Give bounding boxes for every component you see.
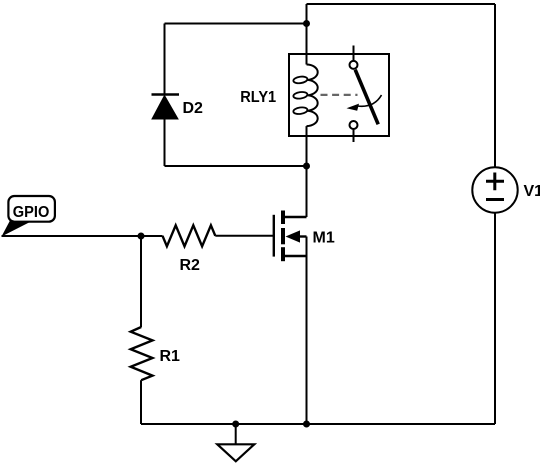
wire right vertical bottom (V1 to bottom rail) [494, 213, 496, 424]
relay actuation arrow [347, 95, 382, 111]
svg-text:V1: V1 [524, 183, 540, 200]
wire trunk top (top wire down into relay coil) [306, 4, 308, 65]
wire junction down to R1 [140, 236, 142, 327]
wire trunk through relay (coil bottom to MOSFET drain) [306, 126, 308, 217]
MOSFET M1 [274, 211, 307, 262]
wire trunk MOSFET source down to bottom rail [306, 237, 308, 425]
diode D2 [152, 24, 180, 167]
junction gate divider node [138, 233, 145, 240]
svg-text:R2: R2 [180, 257, 201, 274]
wire R2 to gate [215, 235, 273, 237]
resistor R2 [163, 225, 216, 246]
svg-text:RLY1: RLY1 [240, 89, 276, 106]
wire R1 to bottom rail [140, 380, 142, 424]
svg-text:GPIO: GPIO [13, 204, 50, 221]
svg-text:R1: R1 [160, 348, 181, 365]
wire D2 top branch [165, 23, 307, 25]
relay switch pin top [353, 46, 355, 62]
wire right vertical top (V1 to top wire) [494, 4, 496, 168]
junction trunk-bottom rail [303, 421, 310, 428]
resistor R1 [131, 327, 153, 380]
relay switch blade [355, 70, 378, 125]
relay switch contact top [350, 61, 358, 69]
junction D2 bottom [303, 163, 310, 170]
junction D2 top [303, 20, 310, 27]
relay actuation dashed link [321, 94, 358, 96]
junction ground node [232, 421, 239, 428]
relay RLY1 box [289, 54, 389, 136]
wire top horizontal from trunk to V1 [307, 3, 496, 5]
wire D2 bottom branch [165, 165, 307, 167]
wire bottom rail [141, 423, 495, 425]
relay switch pin bottom [353, 129, 355, 142]
svg-text:D2: D2 [183, 100, 204, 117]
svg-text:M1: M1 [313, 230, 335, 247]
relay coil [293, 65, 318, 127]
GPIO net flag [2, 196, 55, 237]
relay switch contact bottom [350, 121, 358, 129]
voltage source V1 [472, 167, 517, 212]
ground [217, 424, 254, 461]
wire GPIO to junction [2, 235, 163, 237]
